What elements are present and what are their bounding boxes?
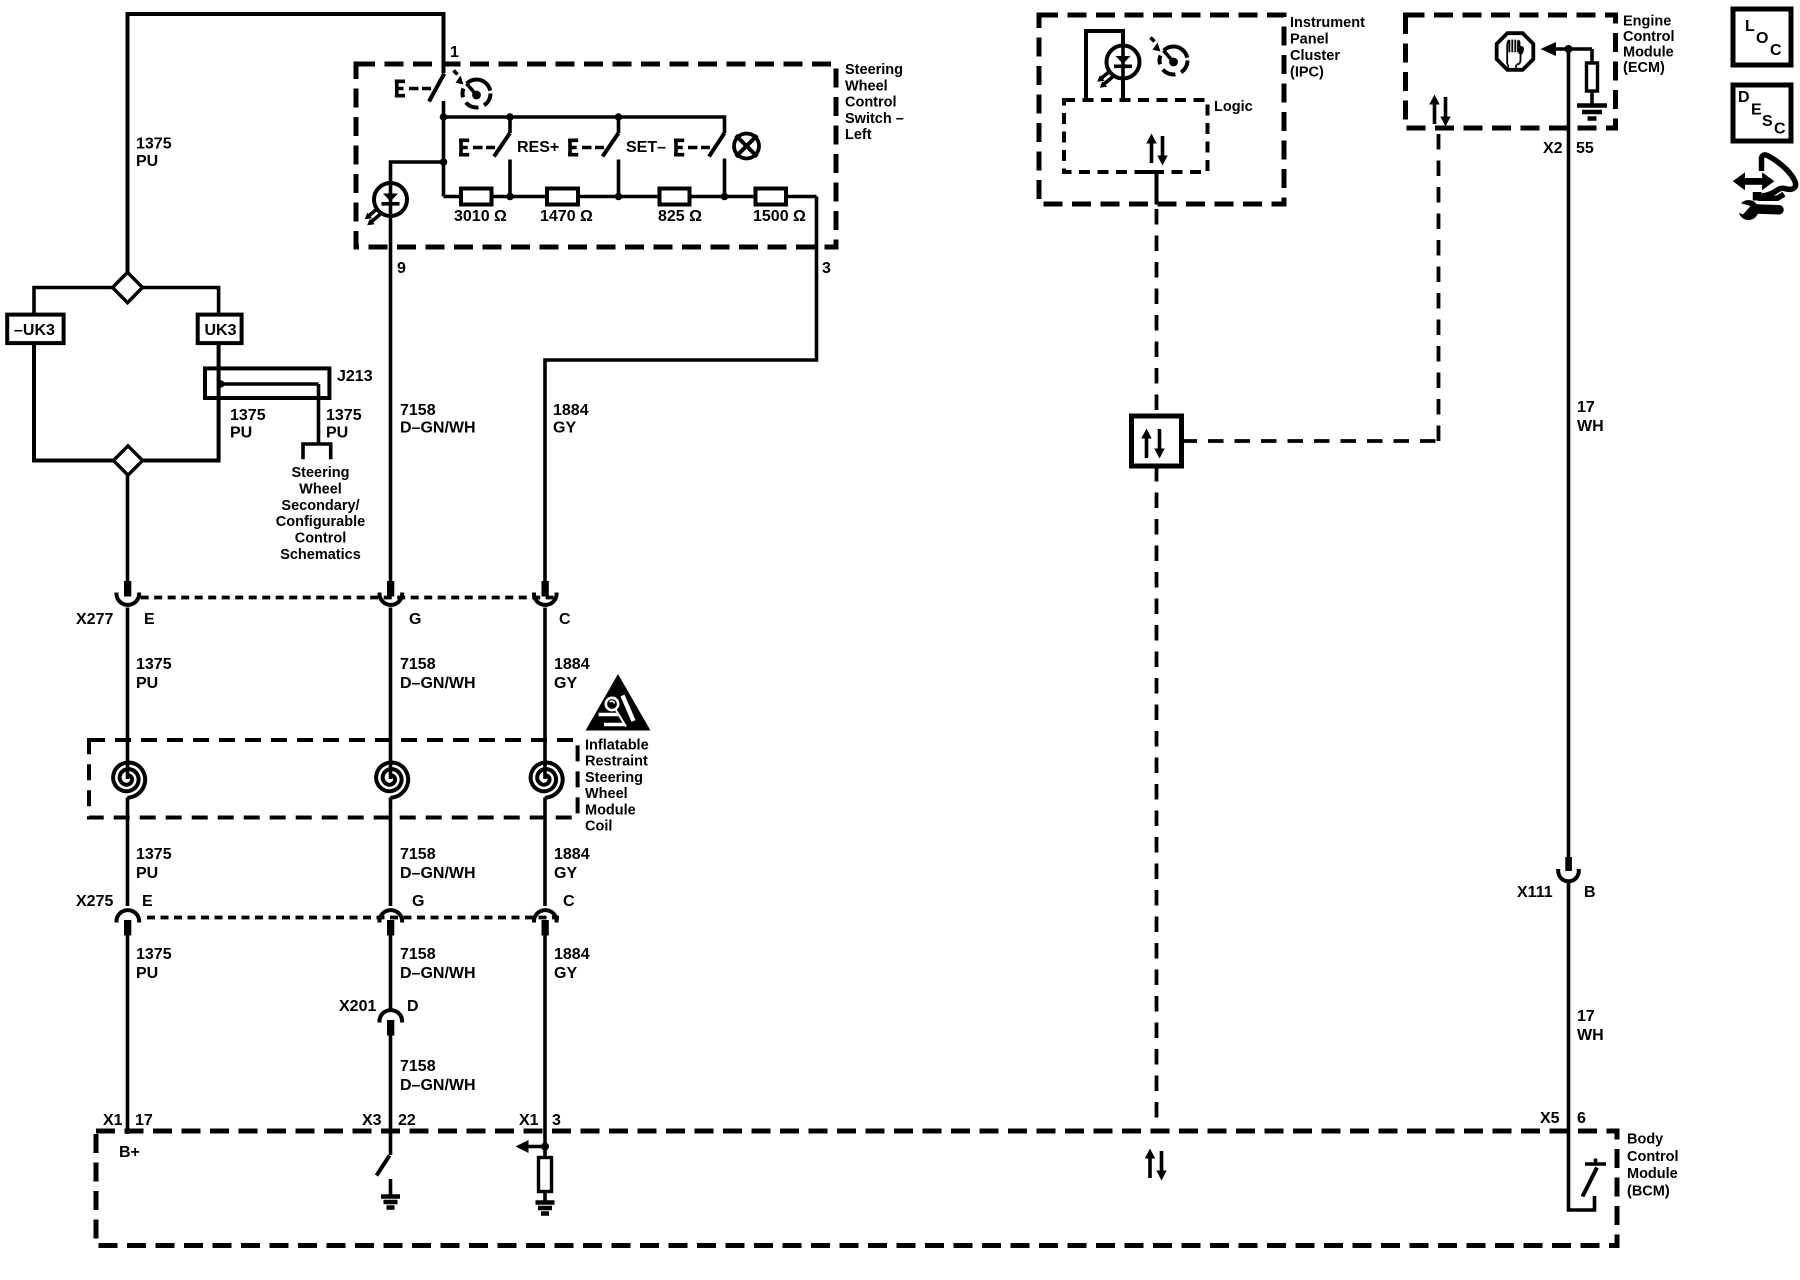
wire X1-3 into BCM with sense arrow xyxy=(543,1131,547,1158)
svg-text:B: B xyxy=(1584,884,1596,901)
svg-text:Switch –: Switch – xyxy=(845,111,904,127)
connector X275 pin E xyxy=(117,910,140,935)
switch S2 RES+ xyxy=(459,117,510,197)
svg-text:17: 17 xyxy=(1577,1008,1595,1025)
resistor in BCM xyxy=(539,1158,552,1192)
svg-text:PU: PU xyxy=(230,425,252,442)
wire inline harness dashed line X277 xyxy=(141,596,559,600)
connector X277 pin C xyxy=(534,581,557,605)
svg-text:D–GN/WH: D–GN/WH xyxy=(400,675,476,692)
wire LED branch xyxy=(391,117,444,197)
svg-text:J213: J213 xyxy=(337,368,373,385)
svg-text:1884: 1884 xyxy=(554,946,590,963)
svg-text:GY: GY xyxy=(554,865,577,882)
svg-text:Instrument: Instrument xyxy=(1290,15,1365,31)
svg-text:Cluster: Cluster xyxy=(1290,48,1340,64)
svg-text:G: G xyxy=(409,611,421,628)
svg-text:22: 22 xyxy=(398,1112,416,1129)
icon cruise gauge (speedometer with arrow) xyxy=(454,71,491,108)
resistor R2 1470 ohm xyxy=(547,189,578,205)
svg-text:Wheel: Wheel xyxy=(585,786,628,802)
svg-text:7158: 7158 xyxy=(400,1058,436,1075)
telltale lamp circuit wire xyxy=(1086,31,1123,100)
resistor rail with 4 resistors xyxy=(444,195,817,199)
wire 1884 GY from pin 3 down and left to X277-C xyxy=(545,197,817,582)
svg-text:1470 Ω: 1470 Ω xyxy=(540,208,593,225)
svg-text:C: C xyxy=(559,611,571,628)
svg-text:Secondary/: Secondary/ xyxy=(281,498,359,514)
wire E to coil xyxy=(126,608,130,780)
svg-text:17: 17 xyxy=(1577,399,1595,416)
module box Steering Wheel Control Switch - Left xyxy=(356,64,836,247)
icon serial data arrows in logic box xyxy=(1146,134,1167,166)
svg-text:1884: 1884 xyxy=(554,656,590,673)
switch S4 cancel xyxy=(674,133,725,197)
svg-text:C: C xyxy=(1774,121,1786,138)
icon cancel (circled X) xyxy=(734,134,759,159)
svg-text:Control: Control xyxy=(845,95,897,111)
svg-text:–UK3: –UK3 xyxy=(14,322,55,339)
svg-text:Steering: Steering xyxy=(845,62,903,78)
icon SIR warning triangle xyxy=(586,674,651,731)
svg-text:Schematics: Schematics xyxy=(280,547,361,563)
svg-text:Engine: Engine xyxy=(1623,14,1671,30)
svg-text:GY: GY xyxy=(554,965,577,982)
svg-text:825 Ω: 825 Ω xyxy=(658,208,702,225)
svg-text:Left: Left xyxy=(845,127,872,143)
wire from lower splice down to X277-E xyxy=(126,475,130,581)
svg-text:Configurable: Configurable xyxy=(276,514,365,530)
wire switch bank top rail xyxy=(444,117,725,133)
LED indicator (backlight) xyxy=(365,182,407,225)
ground in BCM under X1-3 xyxy=(536,1203,555,1214)
svg-text:(IPC): (IPC) xyxy=(1290,65,1324,81)
svg-text:Module: Module xyxy=(1623,45,1674,61)
svg-text:X277: X277 xyxy=(76,611,113,628)
svg-text:1884: 1884 xyxy=(554,846,590,863)
svg-text:Steering: Steering xyxy=(585,770,643,786)
icon stop hand octagon xyxy=(1497,33,1534,70)
resistor R1 3010 ohm xyxy=(461,189,492,205)
wire serial data IPC to gateway box xyxy=(1155,209,1159,416)
module box Body Control Module (BCM) xyxy=(96,1131,1617,1246)
wire from S1 to switch bank rail xyxy=(442,101,446,117)
svg-text:1884: 1884 xyxy=(553,402,589,419)
svg-text:D–GN/WH: D–GN/WH xyxy=(400,420,476,437)
svg-text:Body: Body xyxy=(1627,1132,1663,1148)
svg-text:1500 Ω: 1500 Ω xyxy=(753,208,806,225)
svg-text:D–GN/WH: D–GN/WH xyxy=(400,965,476,982)
wire from logic to IPC edge xyxy=(1141,172,1157,205)
svg-text:(ECM): (ECM) xyxy=(1623,60,1665,76)
icon serial data arrows in ECM xyxy=(1429,95,1450,127)
svg-text:Module: Module xyxy=(585,802,636,818)
wire from LED down to pin 9 exit xyxy=(389,214,393,581)
coil L2 (clockspring G) xyxy=(376,763,408,798)
ground in ECM xyxy=(1577,106,1607,119)
svg-text:1375: 1375 xyxy=(136,656,172,673)
switch S1 (cruise on/off) xyxy=(395,74,445,102)
wire G to coil xyxy=(389,608,393,780)
LED telltale indicator xyxy=(1097,45,1139,88)
icon scan tool (double arrow, vehicle outline, wrench) xyxy=(1731,155,1796,220)
wire C down to BCM xyxy=(543,936,547,1132)
svg-text:X1: X1 xyxy=(519,1112,539,1129)
off-page connector fork xyxy=(303,444,331,459)
svg-text:X5: X5 xyxy=(1540,1110,1560,1127)
svg-text:C: C xyxy=(563,893,575,910)
svg-text:7158: 7158 xyxy=(400,846,436,863)
switch S3 SET- xyxy=(568,117,619,197)
module box Engine Control Module (ECM) xyxy=(1406,15,1616,128)
svg-text:1375: 1375 xyxy=(136,136,172,153)
resistor R4 1500 ohm xyxy=(756,189,787,205)
svg-text:X1: X1 xyxy=(103,1112,123,1129)
svg-text:9: 9 xyxy=(397,260,406,277)
icon cruise gauge in IPC xyxy=(1151,38,1188,75)
splice bar inside J213 xyxy=(220,382,319,386)
svg-text:7158: 7158 xyxy=(400,946,436,963)
connector X201 pin D xyxy=(380,1010,403,1035)
wire segments below UK3 boxes to lower splice xyxy=(34,343,219,460)
svg-text:7158: 7158 xyxy=(400,402,436,419)
svg-text:Steering: Steering xyxy=(291,465,349,481)
wire E down to BCM xyxy=(126,936,130,1132)
svg-text:PU: PU xyxy=(136,865,158,882)
svg-text:D: D xyxy=(1738,89,1750,106)
svg-text:RES+: RES+ xyxy=(517,139,559,156)
svg-text:1: 1 xyxy=(450,44,459,61)
svg-text:3: 3 xyxy=(822,260,831,277)
svg-text:E: E xyxy=(142,893,153,910)
svg-text:X2: X2 xyxy=(1543,140,1563,157)
wire stem from J213 to off-page fork xyxy=(317,384,321,444)
svg-text:Control: Control xyxy=(1627,1149,1679,1165)
svg-text:B+: B+ xyxy=(119,1144,140,1161)
wire 1375 PU from fuse feed: top horizontal and left vertical down to splice diamond xyxy=(128,14,444,272)
svg-text:E: E xyxy=(144,611,155,628)
connector -UK3 xyxy=(7,315,63,344)
icon DESC reference box xyxy=(1733,85,1791,141)
svg-text:PU: PU xyxy=(136,675,158,692)
connector X277 pin G xyxy=(380,581,403,605)
ground in BCM under X3-22 xyxy=(381,1179,400,1208)
svg-text:Wheel: Wheel xyxy=(845,78,888,94)
svg-text:Coil: Coil xyxy=(585,819,612,835)
node rail junction xyxy=(440,113,448,121)
wire inline harness dashed line X275 xyxy=(147,916,559,920)
svg-text:G: G xyxy=(412,893,424,910)
svg-text:7158: 7158 xyxy=(400,656,436,673)
connector UK3 xyxy=(198,315,242,344)
svg-text:Panel: Panel xyxy=(1290,32,1329,48)
icon serial data arrows in BCM xyxy=(1145,1149,1167,1181)
svg-text:1375: 1375 xyxy=(136,846,172,863)
node splice diamond lower xyxy=(113,446,142,475)
svg-text:WH: WH xyxy=(1577,418,1604,435)
svg-text:1375: 1375 xyxy=(136,946,172,963)
svg-text:X111: X111 xyxy=(1517,884,1553,901)
node serial data gateway box xyxy=(1132,416,1182,466)
wires below coils to X275 xyxy=(126,798,130,907)
resistor R3 825 ohm xyxy=(660,189,690,205)
svg-text:PU: PU xyxy=(326,425,348,442)
svg-text:17: 17 xyxy=(135,1112,153,1129)
wire with arrow into stop icon xyxy=(1548,47,1592,51)
svg-text:6: 6 xyxy=(1577,1110,1586,1127)
svg-text:Control: Control xyxy=(1623,29,1675,45)
svg-text:O: O xyxy=(1756,30,1768,47)
svg-text:GY: GY xyxy=(554,675,577,692)
wire serial data gateway down to BCM (dashed) xyxy=(1155,466,1159,1131)
svg-text:D–GN/WH: D–GN/WH xyxy=(400,1077,476,1094)
svg-text:UK3: UK3 xyxy=(205,322,237,339)
switch in BCM (X5-6 input) xyxy=(1569,1131,1595,1210)
wire X111 to BCM pin X5-6 xyxy=(1567,883,1571,1131)
connector X275 pin G xyxy=(380,910,403,935)
wire 17 WH from ECM pin 55 down to X111 xyxy=(1567,49,1571,857)
svg-text:D–GN/WH: D–GN/WH xyxy=(400,865,476,882)
splice pack J213 xyxy=(205,368,373,398)
svg-text:WH: WH xyxy=(1577,1027,1604,1044)
svg-text:Restraint: Restraint xyxy=(585,754,648,770)
svg-text:L: L xyxy=(1745,18,1755,35)
wire below X201 to BCM xyxy=(389,1036,393,1132)
svg-text:X3: X3 xyxy=(362,1112,382,1129)
module box Instrument Panel Cluster (IPC) xyxy=(1039,15,1284,204)
connector X277 pin E xyxy=(117,581,140,605)
connector X275 pin C xyxy=(534,910,557,935)
svg-text:1375: 1375 xyxy=(326,407,362,424)
svg-text:C: C xyxy=(1770,42,1782,59)
wire serial data gateway to ECM (dashed) xyxy=(1182,128,1439,441)
svg-text:S: S xyxy=(1762,113,1773,130)
svg-text:X201: X201 xyxy=(339,998,376,1015)
logic box xyxy=(1064,100,1208,172)
svg-text:Control: Control xyxy=(295,531,347,547)
svg-text:Logic: Logic xyxy=(1214,99,1253,115)
node junction dot X2-55 wire xyxy=(1565,45,1573,53)
module box Inflatable Restraint Steering Wheel Module Coil xyxy=(89,740,578,818)
svg-text:GY: GY xyxy=(553,420,576,437)
connector X111 pin B xyxy=(1558,857,1579,881)
svg-text:3: 3 xyxy=(552,1112,561,1129)
svg-text:E: E xyxy=(1751,102,1762,119)
node LED branch junction xyxy=(440,158,448,166)
switch to ground in BCM (X3-22) xyxy=(389,1131,393,1155)
wire X1-17 stub into BCM xyxy=(126,1131,130,1134)
svg-text:PU: PU xyxy=(136,965,158,982)
icon LOC reference box xyxy=(1733,9,1791,65)
coil L3 (clockspring C) xyxy=(531,763,563,798)
svg-text:(BCM): (BCM) xyxy=(1627,1183,1670,1199)
svg-text:3010 Ω: 3010 Ω xyxy=(454,208,507,225)
coil L1 (clockspring E) xyxy=(113,763,145,798)
svg-text:Inflatable: Inflatable xyxy=(585,738,649,754)
svg-text:X275: X275 xyxy=(76,893,113,910)
node splice diamond upper xyxy=(34,288,219,316)
resistor in ECM xyxy=(1590,49,1594,63)
svg-text:55: 55 xyxy=(1576,140,1594,157)
svg-text:D: D xyxy=(407,998,419,1015)
svg-text:1375: 1375 xyxy=(230,407,266,424)
wire G down to X201 xyxy=(389,936,393,1010)
svg-text:Module: Module xyxy=(1627,1166,1678,1182)
svg-text:Wheel: Wheel xyxy=(299,481,342,497)
wire C to coil xyxy=(543,608,547,780)
note Steering Wheel Secondary/Configurable Control Schematics xyxy=(276,465,365,563)
svg-text:SET–: SET– xyxy=(626,139,666,156)
svg-text:PU: PU xyxy=(136,153,158,170)
